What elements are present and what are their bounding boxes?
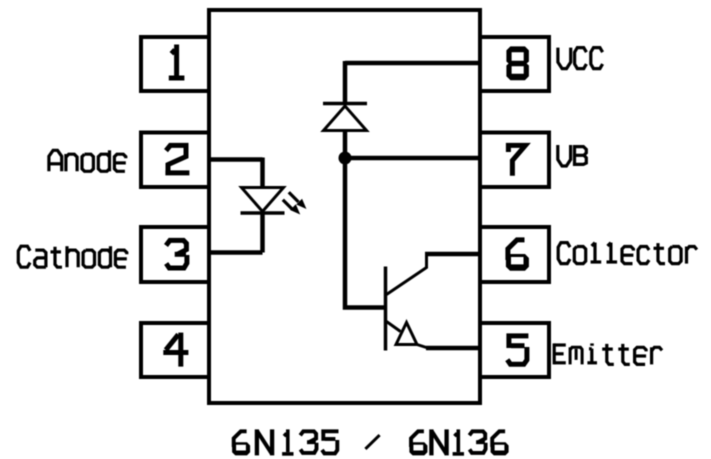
label VCC bbox=[558, 48, 603, 69]
wire pin2 to LED anode bbox=[209, 157, 263, 162]
LED light arrow 1 bbox=[289, 192, 305, 207]
label Anode bbox=[49, 150, 126, 171]
pin 1 bbox=[141, 37, 209, 91]
IC body U1 bbox=[209, 10, 480, 403]
LED light arrow 2 bbox=[283, 200, 299, 213]
pin 7 bbox=[480, 133, 549, 188]
wire emitter to pin 5 bbox=[426, 346, 480, 351]
wire collector to pin 6 bbox=[425, 252, 480, 257]
transistor Q1 bbox=[386, 254, 429, 351]
label Cathode bbox=[18, 246, 127, 267]
wire VCC from photodiode to pin 8 bbox=[345, 61, 480, 66]
label Collector bbox=[558, 243, 697, 264]
pin 4 bbox=[141, 323, 209, 377]
wire node VB to pin 7 bbox=[345, 156, 480, 161]
wire node VB to transistor base bbox=[345, 158, 385, 308]
pin 3 bbox=[141, 227, 209, 282]
pin 8 bbox=[480, 37, 549, 91]
label VB bbox=[558, 145, 587, 166]
LED D1 bbox=[241, 188, 285, 214]
photodiode D2 bbox=[323, 104, 367, 131]
junction node VB bbox=[339, 152, 352, 165]
label Emitter bbox=[554, 343, 662, 364]
wire LED cathode vertical bbox=[260, 213, 265, 253]
pin 5 bbox=[480, 323, 549, 377]
pin 2 bbox=[141, 133, 209, 188]
wire photodiode anode to node VB bbox=[343, 130, 348, 158]
pin 6 bbox=[480, 227, 549, 282]
wire LED anode vertical bbox=[260, 158, 265, 188]
wire LED cathode to pin3 bbox=[209, 250, 263, 255]
wire photodiode cathode vertical bbox=[343, 61, 348, 103]
title 6N135 / 6N136 bbox=[232, 429, 509, 455]
